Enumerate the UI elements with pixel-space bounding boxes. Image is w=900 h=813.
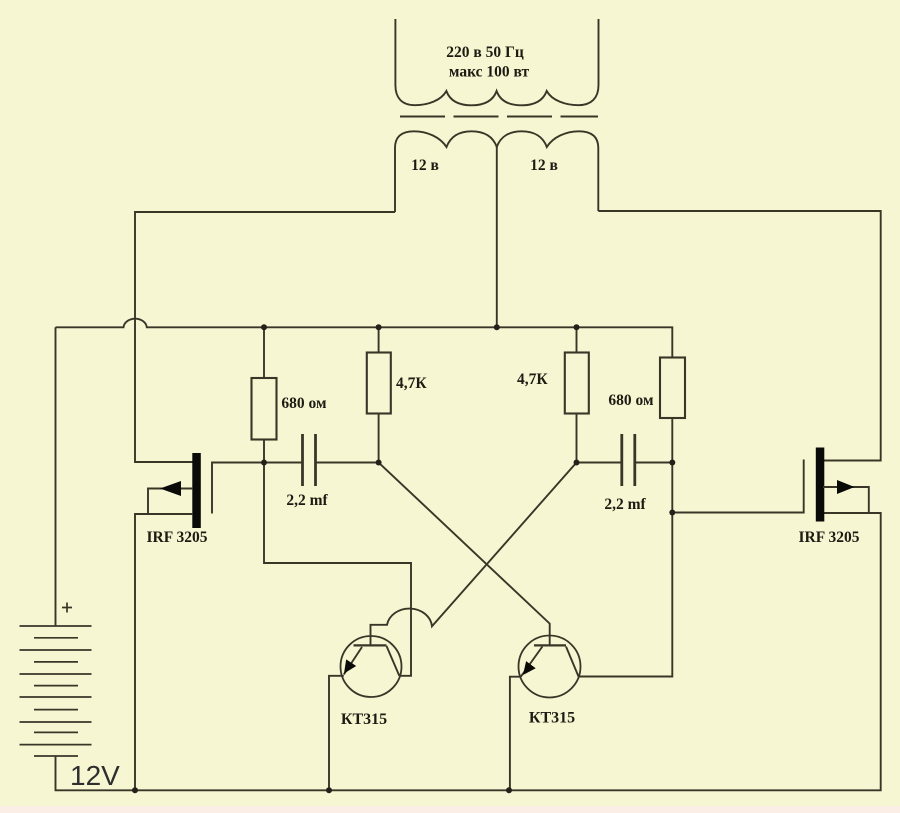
wire: +12V bus with hop over left vertical, down to right 680 resistor xyxy=(56,319,673,358)
node: bus / left 4.7K xyxy=(376,324,382,330)
transformer T1 secondary winding (12v+12v) with center tap xyxy=(395,131,598,327)
MOSFET Q1 IRF 3205 (left) xyxy=(135,453,264,790)
emitter with arrow xyxy=(521,647,543,677)
transformer T1 primary winding (220 V) xyxy=(395,19,598,105)
source arrow branch xyxy=(148,489,192,515)
channel bar xyxy=(192,453,201,528)
wire: left gate node to capacitor xyxy=(264,462,302,464)
emitter wire down to ground rail xyxy=(329,676,344,791)
svg-text:680 ом: 680 ом xyxy=(281,395,327,412)
wire: left rail from bus corner down to battery + terminal xyxy=(55,327,57,626)
node: left gate xyxy=(261,460,267,466)
wire: right node down through gate tap to right KT315 collector xyxy=(579,463,673,677)
wire: right 680 bottom lead xyxy=(671,418,673,463)
capacitor C2 2,2 mf xyxy=(622,434,635,486)
wire: right 4.7K bottom lead xyxy=(576,414,578,463)
wire: right 4.7K node to capacitor xyxy=(577,462,622,464)
wire: left 680 resistor top lead xyxy=(263,327,265,378)
wire: left 680 bottom lead, node down, over to left KT315 collector xyxy=(264,440,411,676)
node: ground / left MOSFET source xyxy=(132,787,138,793)
emitter with arrow xyxy=(344,647,362,675)
wire: left capacitor right plate to 4.7K node xyxy=(317,462,379,464)
svg-text:2,2 mf: 2,2 mf xyxy=(286,492,328,509)
node: ground / right emitter xyxy=(506,787,512,793)
wire: left 4.7K top lead xyxy=(378,327,380,352)
svg-text:4,7К: 4,7К xyxy=(517,371,548,388)
collector xyxy=(566,647,579,677)
svg-text:680 ом: 680 ом xyxy=(608,392,654,409)
svg-text:КТ315: КТ315 xyxy=(341,711,387,728)
svg-text:макс 100 вт: макс 100 вт xyxy=(449,64,530,81)
source arrow branch xyxy=(823,487,869,513)
wire: right capacitor to right 680 node xyxy=(636,462,673,464)
capacitor C1 2,2 mf xyxy=(303,434,316,486)
node: right 680 / cap xyxy=(669,460,675,466)
svg-text:КТ315: КТ315 xyxy=(529,710,575,727)
node: bus / left 680 xyxy=(261,324,267,330)
node: ground / left emitter xyxy=(326,787,332,793)
svg-text:IRF 3205: IRF 3205 xyxy=(147,529,208,546)
gate electrode xyxy=(672,460,803,513)
wire: secondary left lead to left vertical, down to left MOSFET drain xyxy=(135,212,395,462)
emitter wire down to ground rail xyxy=(510,677,521,791)
wire: cross-coupling diagonal from right cap node to left KT315 base, hop over vertical xyxy=(371,463,577,646)
svg-text:IRF 3205: IRF 3205 xyxy=(799,529,860,546)
wire: battery - terminal, bottom ground rail, right rail up to right MOSFET source xyxy=(56,513,881,790)
wire: secondary right lead to right rail, down to right MOSFET drain xyxy=(598,211,880,461)
wire: right 4.7K top lead xyxy=(576,327,578,352)
transformer core (dashed line) xyxy=(400,116,598,118)
svg-text:2,2 mf: 2,2 mf xyxy=(604,496,646,513)
node: bus / right 4.7K xyxy=(574,324,580,330)
gate electrode xyxy=(212,463,264,514)
node: left cap / 4.7K xyxy=(376,460,382,466)
wire: cross-coupling diagonal from left cap node to right KT315 base xyxy=(379,463,550,646)
battery B1 12V xyxy=(20,626,92,756)
base bar xyxy=(534,644,566,646)
transistor Q3 KT315 (left) xyxy=(329,636,402,790)
resistor R3 4,7K xyxy=(565,353,589,414)
svg-text:12V: 12V xyxy=(70,760,120,791)
resistor R2 4,7K xyxy=(367,353,391,414)
svg-text:12 в: 12 в xyxy=(411,157,439,174)
resistor R1 680 om xyxy=(252,378,277,440)
node: right cap / 4.7K xyxy=(574,460,580,466)
wire: left 4.7K bottom lead xyxy=(378,414,380,463)
collector xyxy=(387,646,400,676)
transistor Q4 KT315 (right) xyxy=(510,636,581,791)
resistor R4 680 om xyxy=(660,358,685,419)
base bar xyxy=(354,644,387,646)
center tap wire xyxy=(496,147,498,327)
svg-text:4,7К: 4,7К xyxy=(396,375,427,392)
node: bus / center tap xyxy=(494,324,500,330)
channel bar xyxy=(816,448,825,522)
node: right gate tap xyxy=(669,510,675,516)
source lead xyxy=(135,514,192,790)
battery + sign xyxy=(62,603,72,613)
junction node dots xyxy=(132,324,675,793)
MOSFET Q2 IRF 3205 (right) xyxy=(672,448,869,522)
svg-text:220 в 50 Гц: 220 в 50 Гц xyxy=(446,44,524,61)
svg-text:12 в: 12 в xyxy=(530,157,558,174)
